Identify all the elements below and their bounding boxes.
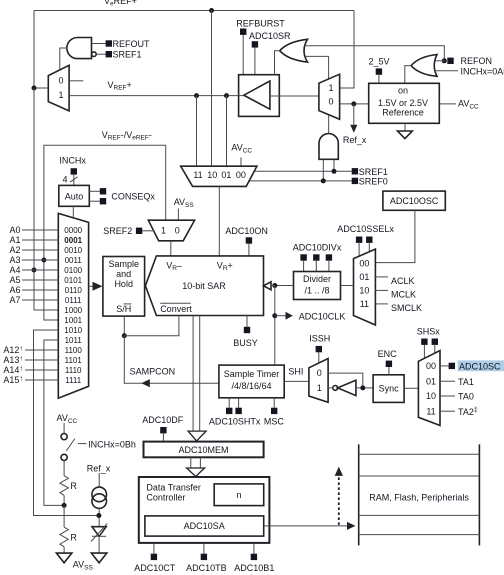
wire U3 input A to REFON node <box>305 46 445 61</box>
wire U5 output to M2 select <box>328 115 330 134</box>
pin ENC <box>386 361 392 367</box>
wire U5 input SREF0 <box>322 159 324 181</box>
svg-text:A3: A3 <box>9 255 20 265</box>
buffer U2 triangle <box>244 81 270 109</box>
bus ADC10MEM to DTC (hollow arrow) <box>190 457 192 468</box>
ground right <box>91 553 106 563</box>
svg-text:CONSEQx: CONSEQx <box>111 191 155 201</box>
or-gate U4 (REFON/INCHx) left-pointing <box>411 55 437 77</box>
svg-text:Convert: Convert <box>160 304 192 314</box>
svg-text:ADC10SA: ADC10SA <box>184 521 225 531</box>
svg-text:BUSY: BUSY <box>233 338 258 348</box>
svg-text:ENC: ENC <box>378 349 398 359</box>
wire M3 output VR+ <box>218 186 220 256</box>
wire ADC10CLK arrow <box>275 315 286 317</box>
and-gate U5 SREF (pointing up) <box>319 134 338 160</box>
svg-text:ADC10SHTx: ADC10SHTx <box>209 417 261 427</box>
wire Auto select to input mux <box>72 206 74 218</box>
overline on H <box>124 303 132 305</box>
wire M8 input 10 TA0 <box>440 395 455 397</box>
wire A0 <box>22 229 58 231</box>
svg-text:A0: A0 <box>9 225 20 235</box>
wire M2 output to buffer input <box>270 95 319 97</box>
svg-text:A7: A7 <box>9 295 20 305</box>
wire SMCLK <box>375 303 388 305</box>
svg-text:R: R <box>70 481 77 491</box>
wire A3 <box>22 259 58 261</box>
svg-text:Sample: Sample <box>108 259 139 269</box>
pin ADC10SC <box>449 363 455 369</box>
svg-text:00: 00 <box>236 170 246 180</box>
svg-text:A2: A2 <box>9 245 20 255</box>
svg-text:1001: 1001 <box>64 316 82 325</box>
block RAM/Flash <box>358 444 360 545</box>
buffer U2 box <box>239 75 280 117</box>
wire VREF- net top segment <box>44 145 166 320</box>
pins ADC10CT ADC10TB ADC10B1 <box>151 554 157 560</box>
mux M7 sample input select (0/1) <box>309 359 328 403</box>
svg-text:TA0: TA0 <box>458 392 474 402</box>
svg-text:4: 4 <box>63 175 68 185</box>
svg-text:ADC10CT: ADC10CT <box>134 563 176 573</box>
switch circle top <box>61 434 67 440</box>
wire col 11 drop <box>196 96 198 167</box>
current source circles <box>92 487 107 502</box>
svg-text:0111: 0111 <box>65 296 82 305</box>
svg-text:SAMPCON: SAMPCON <box>130 367 176 377</box>
svg-text:2_5V: 2_5V <box>369 56 390 66</box>
wire SREF0 row <box>249 180 352 182</box>
gate U1 REFOUT/SREF1 AND (left-pointing, bubble lower input) <box>67 38 92 59</box>
node dot REFON junction <box>442 58 447 63</box>
svg-text:0110: 0110 <box>65 286 83 295</box>
svg-text:10-bit SAR: 10-bit SAR <box>182 281 226 291</box>
pin REFOUT <box>106 40 112 46</box>
wire MCLK <box>375 289 388 291</box>
block Auto <box>59 185 90 206</box>
svg-text:11: 11 <box>360 299 369 309</box>
block 10-bit SAR <box>145 256 263 316</box>
wire 2_5V pin to reference <box>378 75 380 84</box>
pin SREF2 <box>136 228 142 234</box>
mux M1 VeREF+ select (0/1) <box>48 65 69 111</box>
node dot clk b <box>272 313 277 318</box>
wire INCHx pin to Auto <box>73 175 75 186</box>
wire ADC10SR pin to buffer <box>254 48 256 75</box>
wire M5 output VR- <box>170 241 172 256</box>
wire sync to M8 <box>404 387 418 389</box>
wire U1 output to mux select <box>60 48 67 70</box>
svg-text:1010: 1010 <box>64 326 82 335</box>
wire M7 input 0 from sync <box>328 373 363 388</box>
svg-text:ADC10SSELx: ADC10SSELx <box>337 224 394 234</box>
wire VeREF+ top rail <box>34 10 354 12</box>
svg-text:1.5V or 2.5V: 1.5V or 2.5V <box>378 98 428 108</box>
wire VeREF+ left drop <box>33 11 35 89</box>
pin CONSEQx lower <box>100 198 106 204</box>
svg-text:0000: 0000 <box>64 226 82 235</box>
node dot VeREF+/mux output <box>32 86 37 91</box>
wire switch to R1 <box>63 461 65 476</box>
wire ENC pin to sync <box>388 367 390 375</box>
wire SAMPCON <box>124 336 219 384</box>
node junction dot top rail <box>209 8 214 13</box>
wire U4 output to reference enable <box>405 66 411 84</box>
wire AVCC to switch <box>63 423 65 433</box>
svg-text:MCLK: MCLK <box>391 290 416 300</box>
wire Ref_x to current source <box>98 473 100 487</box>
mux M3 VR+ select 11/10/01/00 <box>181 166 257 186</box>
bus slash 4 <box>70 177 78 182</box>
pin SREF0 <box>352 178 358 184</box>
wire ADC10OSC to clock mux 00 <box>375 210 415 262</box>
svg-text:00: 00 <box>426 361 436 371</box>
svg-text:R: R <box>70 533 77 543</box>
block sync <box>373 375 404 403</box>
svg-text:ADC10SR: ADC10SR <box>249 31 291 41</box>
wire reference AVCC <box>439 103 456 105</box>
wire A14 <box>25 369 58 371</box>
svg-text:A5: A5 <box>9 275 20 285</box>
wire clock mux output to divider <box>341 285 354 287</box>
or-gate U3 (REFBURST) left-pointing <box>280 39 308 62</box>
pin BUSY <box>244 327 250 333</box>
wire BUSY stub <box>246 316 248 327</box>
wire M2 input 0 from reference <box>340 103 369 105</box>
wire U6 output to M7 input 1 <box>328 387 333 389</box>
pins ADC10SHTx <box>226 408 232 414</box>
svg-text:A6: A6 <box>9 285 20 295</box>
wire col 01 drop <box>226 96 228 167</box>
pin REFBURST <box>240 29 246 35</box>
svg-text:0101: 0101 <box>64 276 82 285</box>
svg-text:10: 10 <box>359 286 369 296</box>
wire M1 input-0 stub <box>69 80 83 82</box>
svg-text:0: 0 <box>317 368 322 378</box>
svg-text:ADC10SC: ADC10SC <box>459 361 501 371</box>
arrowhead SAMPCON <box>141 379 149 387</box>
ground left <box>56 553 71 563</box>
wire A2 <box>22 249 58 251</box>
pin ADC10SSELx a <box>356 237 362 243</box>
node dot VREF- joins A3 <box>41 258 46 263</box>
mux M8 trigger select <box>418 351 440 426</box>
node dot sync out <box>360 385 365 390</box>
pin REFON <box>447 58 453 64</box>
wire A7 <box>22 299 58 301</box>
pin SREF1 <box>106 51 112 57</box>
svg-text:0: 0 <box>175 226 180 236</box>
svg-text:SREF1: SREF1 <box>359 167 388 177</box>
svg-text:ADC10MEM: ADC10MEM <box>178 445 228 455</box>
wire U3 input B from ref mux select <box>305 56 329 79</box>
wire VeREF+ right drop to ref mux input 1 <box>340 11 354 89</box>
pin ADC10ON <box>246 237 252 243</box>
wire channel 1011 to divider midpoint <box>44 340 64 505</box>
wire AVCC into mux col 00 <box>240 158 242 167</box>
wire M7 output SHI <box>284 380 309 382</box>
wire channel 1010 to temp sensor <box>34 330 99 516</box>
node dot convert net <box>122 333 127 338</box>
pin ISSH <box>316 346 322 352</box>
wires DIVx pins to divider <box>303 261 305 272</box>
wire REFBURST pin to buffer <box>242 35 244 75</box>
wires SSELx pins to mux <box>358 243 360 256</box>
svg-text:Sync: Sync <box>379 384 400 394</box>
svg-text:REFBURST: REFBURST <box>236 18 285 28</box>
svg-text:SHSx: SHSx <box>417 327 441 337</box>
node dot divider midpoint <box>62 503 67 508</box>
wire VREF+ rail <box>69 95 239 97</box>
svg-text:ADC10DF: ADC10DF <box>142 415 184 425</box>
block n <box>214 484 264 506</box>
wire A12 <box>25 349 58 351</box>
svg-text:ADC10CLK: ADC10CLK <box>299 311 346 321</box>
svg-text:Controller: Controller <box>146 493 185 503</box>
svg-text:REFON: REFON <box>461 56 493 66</box>
wires sample timer pins <box>228 398 230 408</box>
wire Ref_x arrow <box>353 104 355 125</box>
block ADC10MEM <box>144 442 264 458</box>
svg-text:RAM, Flash, Peripherials: RAM, Flash, Peripherials <box>369 493 469 503</box>
svg-text:Sample Timer: Sample Timer <box>224 369 280 379</box>
wire CONSEQx upper <box>89 190 100 192</box>
svg-text:0001: 0001 <box>64 236 82 245</box>
svg-text:/1 .. /8: /1 .. /8 <box>304 286 329 296</box>
svg-text:1101: 1101 <box>65 356 83 365</box>
resistor R2 <box>60 527 68 547</box>
svg-text:1: 1 <box>58 90 63 100</box>
wire current source to diode <box>98 508 100 526</box>
svg-text:11: 11 <box>193 170 202 180</box>
svg-text:1: 1 <box>328 83 333 93</box>
wire VeREF+ down to mux col 10 <box>211 11 213 167</box>
svg-text:ACLK: ACLK <box>391 276 415 286</box>
wire clk down to sample timer <box>274 286 276 366</box>
ground under reference <box>404 123 406 131</box>
wire M8 input 01 TA1 <box>440 380 455 382</box>
svg-text:A4: A4 <box>9 265 20 275</box>
wire ISSH pin to M7 <box>318 352 320 363</box>
pin ADC10SSELx b <box>366 237 372 243</box>
wire U4 bottom input INCHx=0Ah <box>434 70 458 72</box>
wire divider output / ADC10CLK net <box>275 285 294 287</box>
svg-text:01: 01 <box>426 376 436 386</box>
svg-text:1100: 1100 <box>65 346 83 355</box>
pins ADC10DIVx <box>300 254 306 260</box>
svg-text:11: 11 <box>426 406 435 416</box>
wire sync output <box>356 387 373 389</box>
pin SREF1 <box>352 168 358 174</box>
svg-text:REFOUT: REFOUT <box>113 39 151 49</box>
svg-text:SMCLK: SMCLK <box>391 303 422 313</box>
switch circle bottom <box>61 454 67 460</box>
wire SREF2 pin to M5 <box>142 230 154 232</box>
wire CONSEQx lower <box>89 200 100 202</box>
svg-text:INCHx: INCHx <box>59 156 86 166</box>
block divider <box>294 272 341 300</box>
inverter U6 <box>338 380 356 395</box>
overline Convert <box>160 302 191 304</box>
svg-text:ADC10ON: ADC10ON <box>225 226 268 236</box>
bubble U6 <box>333 386 338 391</box>
wire U1 upper input <box>92 43 107 45</box>
pin CONSEQx upper <box>100 188 106 194</box>
svg-text:1: 1 <box>161 226 166 236</box>
wire AVSS into M5 <box>177 209 179 221</box>
wire S&H bottom to convert net <box>123 316 125 336</box>
svg-text:1: 1 <box>317 383 322 393</box>
svg-text:and: and <box>116 269 131 279</box>
clock wedge on SAR <box>264 282 272 290</box>
wire buffer output to VREF+ rail <box>239 95 244 97</box>
svg-text:S/H: S/H <box>116 304 131 314</box>
block ADC10SA <box>145 516 264 536</box>
block reference 1.5V/2.5V <box>369 83 440 123</box>
svg-text:SHI: SHI <box>288 366 303 376</box>
wire M8 input 11 TA2 <box>440 410 455 412</box>
wire convert net to SAR <box>124 316 179 336</box>
svg-text:Hold: Hold <box>114 279 133 289</box>
svg-text:0011: 0011 <box>65 256 83 265</box>
mux M4 input channel select <box>58 213 88 398</box>
wire U4 top input <box>435 60 445 62</box>
node dot VREF+ to col 01 <box>224 93 229 98</box>
svg-text:SREF1: SREF1 <box>113 50 142 60</box>
wire midpoint to R2 <box>63 505 65 527</box>
mux M2 reference select (1/0) <box>319 74 340 119</box>
block ADC10OSC <box>383 191 445 210</box>
wire M1 output to VeREF+ rail <box>34 87 48 89</box>
svg-text:TA1: TA1 <box>458 377 474 387</box>
wire R1 to midpoint <box>63 495 65 505</box>
svg-text:MSC: MSC <box>264 417 285 427</box>
wire A6 <box>22 289 58 291</box>
pin MSC <box>271 408 277 414</box>
svg-text:Ref_x: Ref_x <box>343 135 367 145</box>
switch arm <box>66 439 75 451</box>
svg-text:Data Transfer: Data Transfer <box>146 482 201 492</box>
wire A1 <box>22 239 58 241</box>
wire ADC10SA to RAM <box>264 525 347 527</box>
pin 2_5V <box>376 68 382 74</box>
svg-text:01: 01 <box>221 170 231 180</box>
svg-text:ADC10TB: ADC10TB <box>186 563 227 573</box>
svg-text:INCHx=0Bh: INCHx=0Bh <box>88 439 136 449</box>
svg-text:1110: 1110 <box>65 366 82 375</box>
pins SHSx <box>421 339 427 345</box>
node dot SREF1 <box>332 169 337 174</box>
node dot SREF0 <box>321 178 326 183</box>
svg-text:/4/8/16/64: /4/8/16/64 <box>231 381 271 391</box>
wire M4 output to S&H with arrowhead <box>89 285 93 287</box>
bubble on U1 lower input <box>92 52 97 57</box>
svg-text:Ref_x: Ref_x <box>87 464 111 474</box>
pin ADC10DF <box>160 427 166 433</box>
wire R2 to ground <box>63 547 65 553</box>
svg-text:ADC10DIVx: ADC10DIVx <box>293 242 342 252</box>
svg-text:0: 0 <box>328 96 333 106</box>
svg-text:ADC10B1: ADC10B1 <box>234 563 274 573</box>
wires SHSx pins to M8 <box>423 345 425 359</box>
wire A4 <box>22 269 58 271</box>
wire ADC10DF pin to MEM <box>162 433 164 441</box>
svg-text:01: 01 <box>359 272 369 282</box>
svg-text:1111: 1111 <box>65 376 82 385</box>
svg-text:Auto: Auto <box>65 191 84 201</box>
wire U3 output into buffer top <box>275 51 280 75</box>
dashed arrow up <box>338 476 340 525</box>
wire VeREF+ rail down left column <box>34 88 58 310</box>
wire A15 <box>25 379 58 381</box>
svg-text:SREF0: SREF0 <box>359 177 388 187</box>
wire ACLK <box>375 276 388 278</box>
svg-text:SREF2: SREF2 <box>103 226 132 236</box>
svg-text:ADC10OSC: ADC10OSC <box>390 196 439 206</box>
mux M6 clock select <box>354 249 376 325</box>
svg-text:Divider: Divider <box>303 274 331 284</box>
pin ADC10SR <box>252 41 258 47</box>
svg-text:10: 10 <box>207 170 217 180</box>
svg-text:Reference: Reference <box>382 108 424 118</box>
block sample timer <box>219 365 284 398</box>
node dot clk a <box>272 283 277 288</box>
svg-text:on: on <box>398 86 408 96</box>
svg-text:1000: 1000 <box>64 306 82 315</box>
wires DTC bottom pins <box>153 543 155 554</box>
svg-text:ISSH: ISSH <box>309 334 330 344</box>
svg-text:0100: 0100 <box>64 266 82 275</box>
wire clk to SAR wedge <box>271 285 275 287</box>
svg-text:1011: 1011 <box>65 336 83 345</box>
highlight ADC10SC <box>458 360 504 371</box>
diode temperature sensor <box>92 527 106 537</box>
node dot Ref_x tap <box>351 101 356 106</box>
wire U5 input SREF1 <box>333 159 335 171</box>
svg-text:A1: A1 <box>9 235 20 245</box>
wire ADC10ON to SAR <box>248 244 250 256</box>
svg-text:n: n <box>236 490 241 500</box>
node dot temp junction <box>96 513 101 518</box>
node dot VeREF+ joins A4 <box>32 268 37 273</box>
pin INCHx <box>71 168 77 174</box>
svg-text:00: 00 <box>359 259 369 269</box>
resistor R1 <box>60 476 68 496</box>
svg-text:INCHx=0Ah: INCHx=0Ah <box>461 66 504 76</box>
node dot VREF+ to col 11 <box>194 93 199 98</box>
wire INCHx=0Bh <box>78 443 87 445</box>
wire A13 <box>25 359 58 361</box>
wire U1 lower input <box>96 53 106 55</box>
bus SAR to ADC10MEM (hollow arrow) <box>192 316 194 432</box>
wire M8 input 00 <box>440 365 449 367</box>
mux M5 VR- select (1/0) <box>148 220 194 241</box>
block sample and hold <box>103 257 145 317</box>
svg-text:10: 10 <box>426 391 436 401</box>
wire A5 <box>22 279 58 281</box>
wire SREF1 row <box>254 170 352 172</box>
wire diode to ground <box>98 536 100 553</box>
svg-text:0: 0 <box>58 76 63 86</box>
block data transfer controller <box>139 477 270 543</box>
svg-text:0010: 0010 <box>64 246 82 255</box>
